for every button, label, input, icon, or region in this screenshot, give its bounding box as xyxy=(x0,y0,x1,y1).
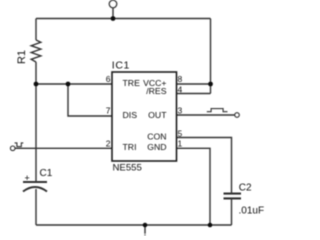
wire C2 bottom to ground rail xyxy=(231,198,233,225)
junction VCC terminal / top rail xyxy=(111,16,116,21)
wire IC1 pin 1 GND to ground rail xyxy=(177,148,211,225)
wire IC1 pin 8 VCC xyxy=(177,83,211,85)
wire ground bottom rail xyxy=(36,224,232,226)
junction pin 8 / pin 4 rail xyxy=(208,82,213,87)
junction ground rail / pin 1 xyxy=(208,223,213,228)
wire VCC top rail xyxy=(36,18,211,20)
junction node A / DIS branch xyxy=(66,82,71,87)
capacitor C1 xyxy=(23,182,47,192)
terminal trigger input xyxy=(10,146,15,151)
svg-text:CON: CON xyxy=(147,132,166,142)
wire node A down to C1 xyxy=(35,84,37,182)
wire VCC terminal stub xyxy=(112,8,114,19)
svg-text:+: + xyxy=(25,173,30,183)
wire R1 bottom to node A xyxy=(35,62,37,84)
svg-text:7: 7 xyxy=(106,106,111,116)
svg-text:R1: R1 xyxy=(16,50,28,64)
capacitor C2 xyxy=(224,194,242,199)
terminal VCC top xyxy=(109,0,117,8)
svg-text:GND: GND xyxy=(147,142,166,152)
svg-text:OUT: OUT xyxy=(148,110,167,120)
wire branch to IC1 pin 7 DIS xyxy=(68,84,112,116)
output positive pulse symbol xyxy=(207,109,228,112)
svg-text:TRI: TRI xyxy=(123,142,137,152)
wire top rail to R1 top xyxy=(35,19,37,41)
svg-text:.01uF: .01uF xyxy=(239,205,265,216)
svg-text:TRE: TRE xyxy=(123,78,141,88)
junction ground rail / ground stub xyxy=(143,223,148,228)
wire right vertical from top rail to pins 8 and 4 xyxy=(210,19,212,94)
svg-text:NE555: NE555 xyxy=(113,163,142,174)
wire node A to IC1 pin 6 TRE xyxy=(36,83,112,85)
svg-text:/RES: /RES xyxy=(146,86,166,96)
resistor R1 xyxy=(31,40,41,62)
svg-text:4: 4 xyxy=(178,85,183,95)
svg-text:1: 1 xyxy=(178,139,183,149)
wire C1 bottom to ground rail xyxy=(35,189,37,225)
wire trigger terminal to IC1 pin 2 TRI xyxy=(15,147,112,149)
svg-text:6: 6 xyxy=(106,74,111,84)
wire IC1 pin 3 OUT to output terminal xyxy=(177,114,235,116)
svg-text:DIS: DIS xyxy=(123,110,138,120)
IC U1 NE555 body xyxy=(112,72,177,161)
svg-text:C1: C1 xyxy=(40,168,53,179)
wire IC1 pin 4 /RES xyxy=(177,93,211,95)
wire IC1 pin 5 CON to C2 xyxy=(177,138,232,194)
terminal output xyxy=(235,113,240,118)
svg-text:2: 2 xyxy=(106,139,111,149)
svg-text:C2: C2 xyxy=(239,182,252,193)
svg-text:3: 3 xyxy=(178,106,183,116)
ground stub xyxy=(144,225,146,234)
junction node A R1 / C1 xyxy=(34,82,39,87)
svg-text:IC1: IC1 xyxy=(112,60,130,72)
trigger negative pulse symbol xyxy=(15,143,24,147)
svg-text:5: 5 xyxy=(178,129,183,139)
svg-text:8: 8 xyxy=(178,74,183,84)
